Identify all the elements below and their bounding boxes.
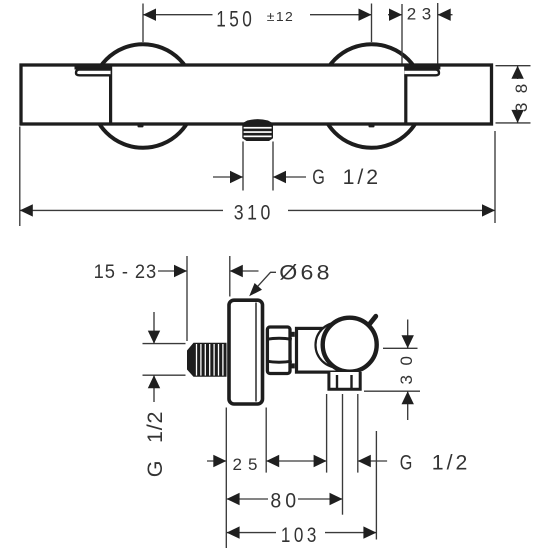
bottom outlet G1/2 (top view) — [242, 119, 273, 141]
dimension 80 — [227, 498, 268, 500]
extension line 150 right — [371, 4, 373, 43]
cartridge flange arc — [316, 323, 361, 368]
extension line 310 left — [19, 127, 21, 227]
dimension 23 arrows — [388, 14, 402, 16]
arrow 150 right — [359, 9, 372, 21]
extension line 23 right — [437, 3, 439, 64]
dimension line 38 — [517, 66, 519, 79]
svg-text:G 1/2: G 1/2 — [143, 411, 167, 478]
dimension 103 — [227, 532, 276, 534]
svg-text:15 - 23: 15 - 23 — [94, 261, 158, 283]
svg-text:38: 38 — [512, 74, 531, 112]
shared arrow segment 25 / G1/2 — [266, 460, 326, 462]
arrow 38 up — [511, 66, 523, 79]
svg-text:25: 25 — [233, 455, 264, 474]
arrow 150 left — [143, 9, 156, 21]
dimension line 310 — [20, 209, 223, 211]
svg-text:Ø68: Ø68 — [279, 261, 333, 285]
left notch band — [75, 65, 111, 70]
svg-text:80: 80 — [270, 489, 300, 513]
extension line 150 left — [142, 4, 144, 43]
right notch slot — [404, 70, 439, 76]
dimension 30 (vertical right) — [383, 347, 418, 349]
extension wall plane — [186, 256, 188, 341]
dimension G1/2 left (vertical) — [143, 343, 186, 345]
svg-text:G: G — [312, 165, 325, 189]
dimension line 150 — [143, 14, 213, 16]
escutcheon inner rim line — [255, 303, 257, 402]
extension lines G1/2 top view — [242, 142, 244, 191]
escutcheon (side view) — [229, 300, 263, 404]
wall thread inlet G1/2 — [187, 343, 227, 377]
svg-text:310: 310 — [234, 200, 274, 224]
hex nut — [267, 327, 290, 374]
svg-text:30: 30 — [397, 347, 416, 385]
svg-text:G: G — [400, 451, 413, 475]
arrow 38 down — [511, 110, 523, 123]
left escutcheon circle (top view) — [91, 44, 195, 148]
left escutcheon drain bump — [138, 124, 144, 127]
right escutcheon circle (top view) — [320, 44, 424, 148]
dimension 25 — [207, 460, 226, 462]
handle pin — [368, 316, 376, 326]
extension line 310 right — [494, 131, 496, 223]
extension line 23 left — [401, 4, 403, 64]
handle knob circle — [323, 318, 377, 372]
left end-cap divider — [109, 65, 112, 124]
extension escutcheon back — [229, 256, 231, 297]
right end-cap divider — [404, 65, 407, 124]
svg-text:103: 103 — [281, 523, 320, 547]
dimension G1/2 right — [358, 460, 387, 462]
svg-text:23: 23 — [407, 5, 437, 24]
valve body — [297, 328, 342, 372]
bottom extension lines — [225, 408, 227, 548]
right notch band — [404, 65, 440, 70]
svg-text:1/2: 1/2 — [432, 451, 471, 475]
svg-text:1/2: 1/2 — [343, 165, 382, 189]
extension lines 38 — [496, 65, 531, 67]
svg-text:±12: ±12 — [267, 10, 294, 24]
dimension G1/2 arrows — [213, 176, 243, 178]
mixer bar body (top view) — [21, 65, 492, 124]
outlet nut below handle — [329, 372, 360, 389]
left notch slot — [76, 70, 111, 76]
svg-text:150: 150 — [216, 7, 255, 32]
right escutcheon drain bump — [369, 124, 375, 127]
